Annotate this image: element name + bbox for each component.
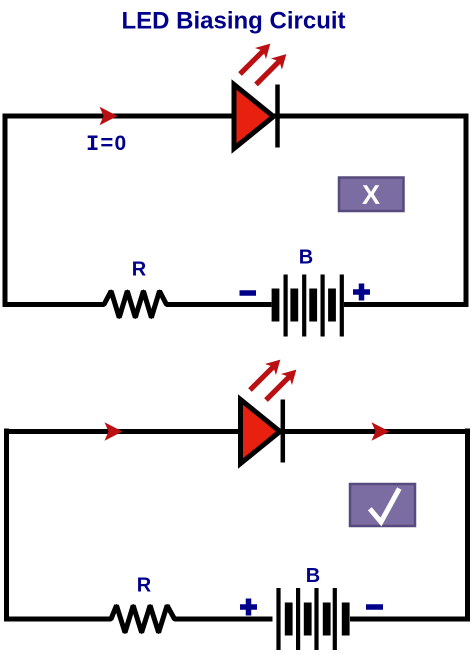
svg-text:LED Biasing Circuit: LED Biasing Circuit xyxy=(121,8,345,35)
svg-text:R: R xyxy=(137,575,152,597)
svg-text:B: B xyxy=(299,247,313,269)
svg-text:I=: I= xyxy=(86,132,114,157)
svg-text:R: R xyxy=(132,259,147,281)
svg-text:0: 0 xyxy=(115,132,127,155)
svg-text:B: B xyxy=(306,565,320,587)
svg-text:X: X xyxy=(362,180,380,210)
